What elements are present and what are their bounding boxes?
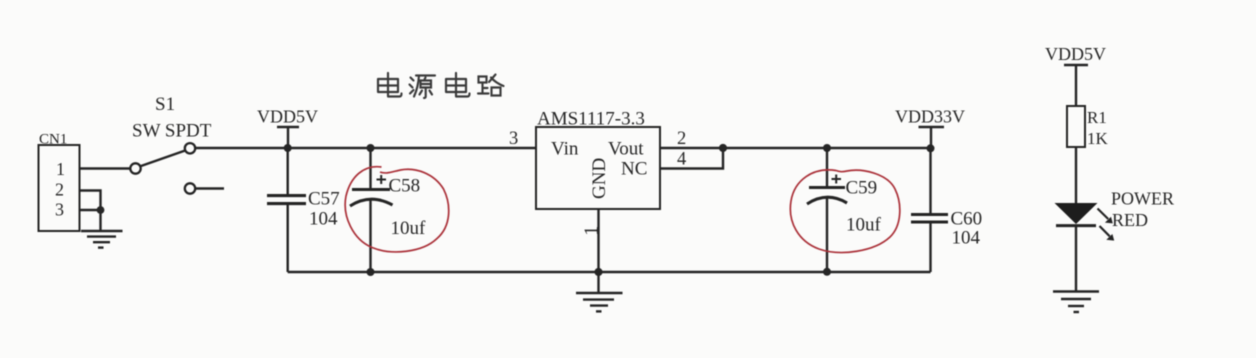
svg-text:C60: C60 (951, 209, 983, 230)
char 电 (1st) (378, 73, 402, 97)
svg-text:VDD33V: VDD33V (895, 107, 965, 127)
char 电 (2nd) (446, 73, 470, 97)
junction GND/bottom rail (594, 268, 602, 276)
svg-text:CN1: CN1 (39, 132, 67, 148)
wire LED to ground (1075, 226, 1077, 292)
switch common contact (130, 163, 140, 173)
svg-text:SW SPDT: SW SPDT (132, 121, 212, 142)
wire pin3 (80, 209, 101, 211)
svg-text:Vin: Vin (551, 139, 579, 160)
junction bottom C59 (823, 268, 831, 276)
svg-text:AMS1117-3.3: AMS1117-3.3 (537, 109, 645, 130)
svg-text:4: 4 (677, 150, 686, 170)
regulator U1 AMS1117-3.3 (536, 127, 660, 209)
junction top C58 (367, 144, 375, 152)
svg-text:POWER: POWER (1111, 189, 1174, 209)
power VDD5V left (277, 127, 299, 148)
junction top C59 (823, 144, 831, 152)
power VDD5V right (1064, 65, 1088, 106)
connector CN1 (39, 145, 80, 231)
ground LED (1053, 292, 1099, 313)
svg-text:R1: R1 (1087, 108, 1107, 127)
svg-text:NC: NC (621, 159, 647, 180)
svg-text:VDD5V: VDD5V (1045, 44, 1106, 64)
wire Vout rail (660, 147, 931, 149)
svg-text:C57: C57 (308, 189, 340, 210)
LED arrow 1 (1098, 209, 1113, 224)
svg-text:104: 104 (309, 209, 338, 230)
svg-text:10uf: 10uf (846, 215, 882, 236)
svg-text:104: 104 (952, 228, 981, 249)
capacitor C60 (911, 148, 948, 272)
svg-text:10uf: 10uf (391, 218, 427, 239)
capacitor C58 polarized (350, 148, 393, 272)
svg-text:1K: 1K (1087, 129, 1109, 148)
ground CN1 (81, 231, 123, 248)
annotation red circle around C58 (345, 167, 449, 252)
capacitor C59 polarized (807, 148, 847, 272)
wire bottom rail (288, 271, 931, 273)
wire GND pin down (597, 209, 599, 272)
LED arrow 2 (1100, 226, 1115, 241)
LED D1 (1055, 203, 1098, 226)
char 路 (478, 75, 504, 96)
svg-text:C59: C59 (846, 178, 878, 199)
svg-text:S1: S1 (155, 94, 175, 115)
svg-text:2: 2 (677, 129, 686, 149)
svg-text:3: 3 (55, 200, 64, 220)
annotation red circle around C59 (790, 170, 899, 253)
junction VDD33V/C60 (927, 144, 935, 152)
title 电源电路 (hand-drawn strokes) (378, 73, 504, 98)
switch throw1 contact (185, 143, 195, 153)
ground U1 (576, 272, 623, 311)
svg-text:RED: RED (1112, 210, 1148, 230)
wire throw2 stub (195, 187, 224, 189)
svg-text:GND: GND (589, 158, 610, 199)
switch throw2 contact (185, 183, 195, 193)
wire R1 to LED (1075, 147, 1077, 203)
svg-text:2: 2 (55, 180, 64, 200)
switch lever (140, 151, 185, 167)
wire top rail (195, 147, 536, 149)
junction NC/Vout (719, 144, 727, 152)
junction VDD5V/C57 (284, 144, 292, 152)
wire pin2 (80, 191, 101, 232)
svg-text:3: 3 (509, 129, 518, 149)
svg-text:Vout: Vout (608, 139, 644, 160)
svg-text:1: 1 (56, 159, 65, 179)
svg-text:VDD5V: VDD5V (257, 107, 318, 127)
power VDD33V (919, 127, 945, 148)
svg-text:C58: C58 (389, 176, 421, 197)
wire pin1 to switch (80, 167, 131, 169)
char 源 (410, 76, 436, 99)
resistor R1 (1067, 106, 1085, 147)
wire NC to Vout rail (660, 148, 723, 169)
capacitor C57 (267, 148, 306, 272)
junction bottom C58 (367, 268, 375, 276)
junction pin2/pin3 (97, 206, 105, 214)
